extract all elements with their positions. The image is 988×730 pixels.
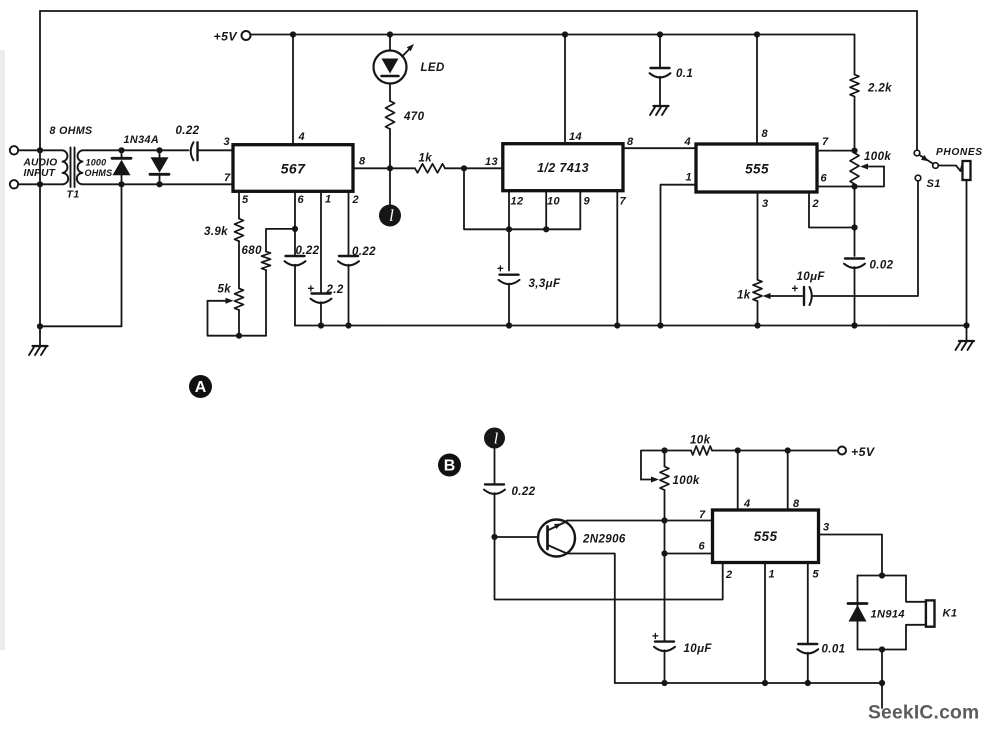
ground left: [39, 326, 41, 345]
wire 100k wiper loop: [641, 479, 653, 481]
wire pin 7 of 7413 to ground rail: [616, 191, 618, 326]
diode D2 1N34A shunt: [150, 157, 169, 174]
wire 555 pin 7 to 2.2k: [817, 150, 855, 152]
svg-text:3: 3: [762, 198, 769, 210]
wire collector to ground rail B: [567, 554, 615, 684]
wire base lead: [495, 536, 539, 538]
capacitor C1 0.22 coupling: [191, 142, 194, 160]
ground at 0.1 cap: [650, 106, 669, 115]
wire 555 pin 4 to +5V: [737, 451, 739, 511]
transformer T1: [63, 150, 69, 184]
svg-text:1N914: 1N914: [871, 609, 905, 621]
wire 5k wiper loop: [208, 300, 227, 302]
resistor R2 470: [386, 101, 395, 129]
svg-text:0.01: 0.01: [822, 644, 846, 656]
relay K1 coil: [926, 600, 935, 626]
svg-text:2.2k: 2.2k: [867, 83, 892, 95]
diode D4 1N914: [848, 602, 867, 605]
wire 1k to pin 13 node: [445, 167, 503, 169]
timer U4 555: [713, 510, 819, 563]
ground right: [966, 326, 968, 341]
svg-text:SeekIC.com: SeekIC.com: [868, 703, 979, 724]
resistor R7 3.9k on pin 5: [238, 191, 240, 218]
svg-text:10k: 10k: [690, 435, 711, 447]
svg-text:AUDIO: AUDIO: [23, 158, 58, 169]
switch S1: [914, 150, 920, 156]
op-amp U1 567 tone decoder: [233, 145, 353, 192]
node +5V terminal (section A): [242, 31, 251, 40]
wire 555 pin 8 to +5V: [756, 35, 758, 145]
wire relay loop: [858, 575, 907, 577]
wire pin13 node to pins 12 10 9 tie: [464, 168, 580, 229]
wire 567 pin 2 branch: [348, 191, 350, 256]
capacitor C2 0.22 on pin 6: [286, 255, 305, 257]
svg-text:7: 7: [822, 136, 829, 148]
svg-text:2N2906: 2N2906: [582, 534, 626, 546]
potentiometer R5 100k: [850, 153, 859, 184]
node link L (section B): [484, 428, 505, 449]
wire ground rail section A: [295, 325, 967, 327]
svg-text:7: 7: [699, 509, 706, 521]
wire 10uF to switch S1: [813, 181, 918, 296]
svg-text:8: 8: [762, 128, 769, 140]
svg-text:1k: 1k: [419, 153, 433, 165]
svg-text:1k: 1k: [737, 290, 751, 302]
svg-text:680: 680: [242, 245, 263, 257]
svg-text:3: 3: [224, 136, 231, 148]
svg-text:100k: 100k: [673, 475, 700, 487]
svg-text:PHONES: PHONES: [936, 147, 983, 158]
svg-text:13: 13: [485, 156, 498, 168]
wire transformer secondary bottom: [83, 183, 234, 185]
wire pin 14 of 7413 to +5V: [564, 35, 566, 144]
svg-text:470: 470: [403, 111, 425, 123]
svg-text:567: 567: [281, 161, 306, 177]
wire 567 pin 8 output node: [353, 167, 415, 169]
svg-text:1N34A: 1N34A: [124, 134, 160, 146]
svg-text:LED: LED: [421, 62, 445, 74]
diode D1 1N34A shunt: [112, 158, 131, 175]
svg-text:A: A: [195, 379, 207, 396]
wire 7413 pin 8 to 555 pin 4: [623, 147, 696, 149]
wire audio input leads: [18, 149, 62, 151]
svg-text:6: 6: [821, 173, 828, 185]
resistor R9 680: [265, 270, 267, 336]
svg-text:0.22: 0.22: [352, 246, 376, 258]
svg-text:555: 555: [754, 529, 778, 544]
wire 567 pin 6 branch: [294, 191, 296, 256]
node link L (section A): [389, 168, 391, 205]
wire 555 pin 2: [809, 192, 855, 228]
svg-text:5k: 5k: [218, 284, 232, 296]
resistor R6 1k output pot: [757, 192, 759, 280]
svg-text:0.02: 0.02: [870, 260, 894, 272]
capacitor C11 0.01: [798, 643, 817, 645]
node +5V terminal (section B): [838, 447, 846, 455]
svg-text:0.22: 0.22: [512, 486, 536, 498]
wire top rail outer loop: [40, 10, 917, 12]
wire 100k node column: [664, 451, 666, 467]
svg-text:3,3μF: 3,3μF: [529, 278, 562, 290]
svg-text:8: 8: [359, 156, 366, 168]
wire 567 pin 1 branch: [320, 191, 322, 293]
gate U2 1/2 7413 schmitt trigger: [503, 144, 623, 191]
capacitor C7 0.02: [845, 257, 864, 259]
wire ground rail section B: [615, 682, 883, 684]
transistor Q1 2N2906: [538, 520, 575, 557]
svg-text:OHMS: OHMS: [85, 168, 113, 178]
svg-text:12: 12: [511, 196, 524, 208]
wire 555 pin 6 to 100k: [817, 186, 855, 188]
svg-text:100k: 100k: [864, 151, 891, 163]
svg-text:2: 2: [352, 194, 360, 206]
wire 555 pin 3 to relay: [819, 535, 883, 576]
resistor R11 10k: [665, 450, 692, 452]
node audio input terminals: [10, 146, 18, 154]
resistor R3 1k: [415, 164, 445, 173]
svg-text:4: 4: [298, 131, 306, 143]
wire relay to ground rail B: [881, 650, 883, 684]
svg-text:0.1: 0.1: [676, 68, 693, 80]
svg-text:B: B: [444, 458, 456, 475]
svg-text:+5V: +5V: [214, 30, 239, 44]
svg-text:8: 8: [627, 136, 634, 148]
svg-text:l: l: [389, 206, 394, 225]
wire 1k wiper to 10uF: [768, 295, 803, 297]
svg-text:INPUT: INPUT: [24, 168, 56, 179]
svg-text:1: 1: [325, 194, 332, 206]
svg-text:4: 4: [743, 498, 751, 510]
svg-text:9: 9: [584, 196, 591, 208]
svg-text:+: +: [792, 284, 799, 296]
potentiometer R10 100k: [660, 467, 669, 491]
LED D3: [374, 51, 407, 84]
svg-text:7: 7: [620, 196, 627, 208]
svg-text:l: l: [494, 431, 499, 448]
svg-text:14: 14: [569, 131, 582, 143]
svg-text:8 OHMS: 8 OHMS: [50, 125, 93, 137]
svg-text:2: 2: [812, 198, 820, 210]
wire cap to pin 3: [198, 149, 234, 151]
wire +5V bus: [251, 34, 855, 36]
wire LED leads: [389, 35, 391, 51]
svg-text:0.22: 0.22: [176, 125, 200, 137]
svg-text:5: 5: [813, 569, 820, 581]
svg-text:555: 555: [745, 162, 769, 177]
wire S1 to phone jack: [939, 163, 963, 171]
svg-text:4: 4: [684, 136, 692, 148]
svg-text:S1: S1: [927, 178, 941, 190]
capacitor C4 0.22 on pin 2: [339, 255, 358, 257]
svg-text:1000: 1000: [86, 158, 107, 168]
svg-text:0.22: 0.22: [296, 245, 320, 257]
svg-text:2.2: 2.2: [326, 284, 344, 296]
wire jack sleeve to ground rail: [966, 180, 968, 326]
wire 555 pin 6 link: [665, 553, 713, 555]
svg-text:7: 7: [224, 172, 231, 184]
svg-text:8: 8: [793, 498, 800, 510]
wire 555 pin 5 branch: [807, 563, 809, 645]
svg-text:2: 2: [725, 569, 733, 581]
capacitor C9 0.22 input: [485, 483, 504, 485]
svg-text:5: 5: [242, 194, 249, 206]
svg-text:1: 1: [686, 172, 693, 184]
resistor R4 2.2k: [854, 35, 856, 75]
svg-text:1/2 7413: 1/2 7413: [537, 161, 589, 175]
svg-text:10μF: 10μF: [797, 271, 826, 283]
phone jack J1: [963, 161, 971, 180]
wire 555 pin 1 to ground rail: [661, 185, 697, 326]
svg-text:3: 3: [823, 522, 830, 534]
potentiometer R8 5k: [235, 288, 244, 310]
wire base node to 555 pin 2: [495, 537, 723, 600]
wire transformer secondary top: [83, 149, 189, 151]
svg-text:10μF: 10μF: [684, 643, 713, 655]
svg-text:6: 6: [699, 541, 706, 553]
wire pin6 node down to 10uF: [664, 554, 666, 642]
timer U3 555: [696, 144, 817, 192]
wire 555 pin 1 to ground: [764, 563, 766, 684]
svg-text:1: 1: [769, 569, 776, 581]
capacitor C6 0.1 bypass: [659, 35, 661, 69]
svg-text:K1: K1: [943, 608, 958, 620]
node badge A: [189, 375, 212, 398]
wire 555 pin 8 to +5V: [787, 451, 789, 511]
svg-text:T1: T1: [67, 189, 80, 201]
node badge B: [438, 454, 461, 477]
wire ground return left: [121, 184, 123, 326]
wire pin7 node to pin 6 node: [664, 521, 666, 554]
wire emitter to 555 pin 7: [567, 520, 713, 522]
svg-text:+5V: +5V: [851, 445, 876, 459]
svg-text:6: 6: [298, 194, 305, 206]
svg-text:10: 10: [547, 196, 561, 208]
wire pin 6 node down to 0.02: [854, 187, 856, 257]
svg-text:3.9k: 3.9k: [204, 226, 228, 238]
wire pin 4 of 567 to +5V: [292, 35, 294, 145]
